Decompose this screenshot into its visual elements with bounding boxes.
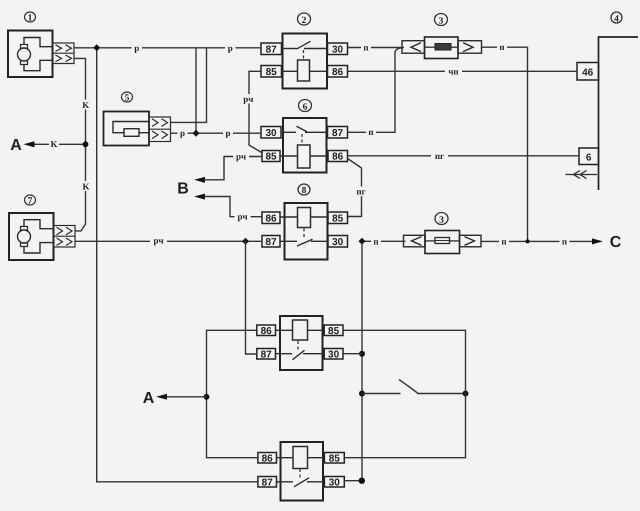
- relay K3 pin 87 box: [257, 349, 276, 361]
- wire branch down to P junction near component 5: [195, 48, 197, 133]
- wire label P before component5 junction: [178, 128, 188, 138]
- junction at relay K4 pin 30: [359, 478, 365, 484]
- svg-text:85: 85: [332, 214, 344, 225]
- fuse F2 left connector: [404, 235, 426, 247]
- junction P node at component 5 output: [193, 130, 200, 137]
- wire label ChP: [445, 66, 462, 76]
- relay K6 coil link dashed: [301, 134, 303, 145]
- wire net K from component 1 down to component 7: [74, 58, 86, 231]
- fuse F2 internal wires: [425, 240, 460, 242]
- svg-text:pч: pч: [237, 212, 247, 222]
- svg-text:87: 87: [332, 128, 344, 139]
- switch S1 right wire: [417, 393, 466, 395]
- relay K2 pin 85 box: [261, 66, 282, 79]
- svg-text:86: 86: [265, 214, 277, 225]
- connector X7 of component 7: [54, 226, 76, 248]
- motor M1 brush top: [21, 45, 28, 49]
- component 5 internal element outline: [113, 122, 149, 133]
- relay K2 pin 86 box: [328, 66, 348, 79]
- svg-text:85: 85: [265, 152, 277, 163]
- svg-text:30: 30: [332, 237, 344, 248]
- junction at switch right: [463, 391, 469, 397]
- resistor element inside component 5: [124, 129, 139, 137]
- relay K8 pin 87 box: [262, 236, 280, 249]
- wire label P at x230: [225, 43, 236, 53]
- arrowhead of node C: [592, 238, 603, 244]
- svg-text:чп: чп: [448, 66, 458, 76]
- svg-text:30: 30: [265, 128, 277, 139]
- wire from node B lower arrow to relay 8 pin 86: [204, 197, 262, 217]
- svg-text:п: п: [562, 236, 567, 246]
- relay K6 pin 85 box: [262, 151, 280, 163]
- relay K3 coil link dashed: [297, 341, 299, 351]
- wire net P horizontal from component 1 to relay 2 pin 87: [74, 47, 261, 49]
- relay K2 body: [283, 34, 328, 89]
- connector block component 4 circled label 4: [611, 12, 622, 24]
- wire left loop connecting relay K3 pin 86 and relay K4 pin 86: [207, 330, 258, 457]
- component 5 circled label 5: [122, 92, 133, 104]
- wire P from RC junction to fuse F2: [362, 240, 406, 242]
- junction at switch left: [359, 391, 365, 397]
- relay K2 coil link dashed: [303, 50, 305, 60]
- arrowhead of node A bottom: [156, 394, 167, 400]
- relay K8 body: [285, 203, 328, 260]
- wire label K lower: [81, 181, 91, 192]
- wire net P from component 5 to relay 6 pin 30: [171, 132, 262, 134]
- relay K4 coil: [293, 447, 308, 469]
- svg-text:п: п: [499, 42, 504, 52]
- wire from relay K3 pin 30 to vertical: [343, 353, 362, 355]
- relay K4 pin 87 box: [258, 477, 277, 489]
- svg-text:K: K: [82, 182, 89, 192]
- svg-text:пг: пг: [356, 186, 365, 196]
- fuse F1 element: [435, 44, 451, 51]
- svg-text:pч: pч: [243, 94, 253, 104]
- svg-text:8: 8: [302, 186, 307, 196]
- svg-text:86: 86: [262, 454, 274, 465]
- svg-text:86: 86: [332, 67, 344, 78]
- relay K6 contact wire and blade: [281, 126, 328, 132]
- wire label PG right: [431, 151, 448, 161]
- component 4 pin 46 box: [577, 63, 599, 81]
- svg-text:3: 3: [439, 215, 444, 225]
- wire branch from component 5 upper pin up to net P: [171, 48, 207, 123]
- svg-text:86: 86: [261, 326, 273, 337]
- svg-text:30: 30: [329, 478, 341, 489]
- svg-text:85: 85: [328, 326, 340, 337]
- fuse F1 body: [425, 37, 459, 59]
- switch S1 left wire: [362, 393, 401, 395]
- fuse F2 (component 3 bottom) circled label 3: [435, 213, 448, 226]
- junction at relay K3 pin 30: [359, 351, 365, 357]
- fuse F1 right connector: [458, 41, 482, 54]
- motor M2 armature circle: [18, 230, 31, 243]
- double-chevron arrow symbol below pin 6: [566, 171, 598, 179]
- relay K4 pin 86 box: [258, 453, 277, 465]
- motor M2 (component 7) outer box: [9, 213, 54, 260]
- component 4 pin 6 box: [579, 148, 599, 165]
- wire label RC on wire from component 7: [150, 235, 167, 245]
- svg-text:86: 86: [332, 152, 344, 163]
- connector block component 4 outline: [599, 37, 639, 190]
- wire label P after fuse F2: [499, 236, 509, 246]
- svg-text:87: 87: [266, 45, 278, 56]
- motor M1 (component 1) outer box: [8, 31, 53, 78]
- junction P node at component 1 output: [93, 44, 100, 51]
- relay K3 coil: [293, 320, 308, 340]
- svg-text:30: 30: [332, 45, 344, 56]
- relay K4 (lower bottom relay) body: [281, 442, 324, 501]
- relay K3 pin 30 box: [324, 349, 343, 361]
- switch S1 blade: [399, 380, 418, 394]
- wire label P on relay 6 pin 87 wire: [366, 127, 376, 137]
- relay K3 contact wire and blade: [276, 350, 325, 359]
- relay K4 pin 85 box: [324, 453, 344, 465]
- junction K node with branch A: [83, 141, 89, 147]
- svg-text:85: 85: [329, 454, 341, 465]
- resistor block component 5 box: [104, 112, 150, 146]
- relay K6 (component 6) circled label 6: [299, 100, 312, 113]
- relay K4 pin 30 box: [324, 477, 344, 489]
- svg-text:85: 85: [266, 67, 278, 78]
- relay K8 coil link dashed: [303, 229, 305, 240]
- node B upper arrowhead: [194, 177, 205, 183]
- svg-text:K: K: [50, 139, 57, 149]
- svg-text:пг: пг: [435, 151, 444, 161]
- wire P from relay 2 pin 30 to fuse F1: [348, 47, 405, 49]
- relay K3 pin 85 box: [324, 325, 343, 337]
- svg-text:46: 46: [582, 68, 594, 79]
- relay K8 coil wires: [280, 216, 328, 218]
- wire label K on A branch: [49, 139, 59, 149]
- component 7 circled label 7: [25, 195, 36, 207]
- svg-text:2: 2: [302, 16, 307, 26]
- svg-text:7: 7: [28, 197, 33, 207]
- arrowhead of node A left: [24, 141, 35, 147]
- wire label P before fuse F1: [361, 43, 371, 53]
- fuse F2 right connector: [460, 235, 482, 247]
- wire label K upper: [81, 100, 90, 111]
- wire from RC junction down to relay K3 pin 87: [246, 241, 257, 354]
- relay K6 pin 87 box: [328, 127, 348, 140]
- component 1 circled label 1: [25, 12, 36, 24]
- svg-text:1: 1: [28, 14, 33, 24]
- svg-text:п: п: [368, 127, 373, 137]
- svg-text:p: p: [180, 128, 185, 138]
- wire P from fuse F1 down to net P lower: [482, 47, 528, 241]
- relay K2 coil wires: [282, 70, 328, 72]
- svg-text:п: п: [363, 43, 368, 53]
- wire label P after fuse F1: [497, 42, 507, 52]
- wire label P before node C: [560, 236, 570, 246]
- relay K8 pin 30 box: [328, 236, 348, 249]
- wire from node A arrow to junction: [165, 396, 207, 398]
- relay K2 contact wire and blade: [282, 41, 328, 49]
- fuse F1 left connector: [402, 41, 425, 54]
- relay K2 pin 30 box: [328, 43, 348, 56]
- relay K8 (component 8) circled label 8: [298, 184, 310, 196]
- relay K4 contact wire and blade: [277, 478, 325, 487]
- connector X1 of component 1: [53, 43, 75, 64]
- wire label P after component5 junction: [223, 128, 233, 138]
- relay K2 coil: [298, 60, 310, 81]
- wire ChP from relay 2 pin 86 to component 4 pin 46: [348, 70, 578, 72]
- motor M2 internal wiring top: [24, 220, 54, 229]
- wire PG from relay 6 pin 86 down to relay 8 pin 85: [348, 159, 362, 217]
- wire right loop connecting relay K3 pin 85 and relay K4 pin 85: [343, 330, 466, 457]
- fuse F2 body: [425, 231, 460, 254]
- relay K6 body: [283, 118, 327, 173]
- svg-text:87: 87: [262, 478, 274, 489]
- wire net RC from component 7 to relay 8 pin 87: [75, 240, 261, 242]
- relay K4 coil link dashed: [299, 469, 301, 479]
- svg-text:6: 6: [303, 102, 308, 112]
- motor M1 brush bottom: [21, 61, 28, 65]
- motor M2 internal wiring bottom: [24, 243, 54, 253]
- wire long vertical from P junction down to bottom relay pin 87: [97, 48, 258, 482]
- relay K2 (component 2) circled label 2: [298, 13, 311, 26]
- relay K8 pin 86 box: [262, 212, 280, 225]
- fuse F1 internal wires: [425, 46, 459, 48]
- svg-text:3: 3: [439, 16, 444, 26]
- svg-text:p: p: [228, 43, 233, 53]
- wire from node B upper arrow to relay 6 pin 85: [204, 157, 262, 180]
- junction node A bottom: [204, 394, 210, 400]
- relay K4 coil wires: [277, 457, 325, 459]
- wire label RC on B lower wire: [235, 212, 251, 222]
- wire net A-left branch: [33, 143, 86, 145]
- wire label RC on B upper wire: [233, 152, 249, 162]
- svg-text:п: п: [501, 236, 506, 246]
- svg-text:6: 6: [586, 152, 592, 163]
- motor M2 brush top: [21, 227, 28, 231]
- svg-text:30: 30: [328, 350, 340, 361]
- junction P node at relay 8 pin 30: [359, 238, 366, 245]
- relay K6 pin 30 box: [261, 127, 281, 140]
- wire P from relay 6 pin 87 joining fuse F1 input: [348, 48, 403, 133]
- svg-text:pч: pч: [236, 152, 246, 162]
- svg-text:C: C: [610, 234, 622, 251]
- relay K8 contact wire and blade: [280, 239, 328, 246]
- relay K3 (upper bottom relay) body: [280, 316, 323, 370]
- relay K6 coil wires: [280, 155, 328, 157]
- svg-text:p: p: [134, 43, 139, 53]
- node B lower arrowhead: [194, 194, 205, 200]
- motor M2 brush bottom: [21, 243, 28, 247]
- svg-text:B: B: [177, 181, 189, 198]
- wire label PG on vertical: [355, 186, 369, 196]
- relay K6 pin 86 box: [328, 151, 348, 163]
- svg-text:87: 87: [265, 237, 277, 248]
- fuse F1 (component 3 top) circled label 3: [435, 14, 448, 27]
- wire P from fuse F2 to node C: [481, 240, 592, 242]
- relay K8 pin 85 box: [328, 212, 348, 225]
- junction of vertical P with lower P wire: [526, 239, 530, 243]
- relay K3 coil wires: [276, 329, 325, 331]
- wire label P at x137: [132, 43, 143, 53]
- svg-text:5: 5: [125, 94, 130, 104]
- motor M1 armature circle: [18, 48, 31, 61]
- motor M1 internal wiring top: [24, 38, 53, 47]
- svg-text:87: 87: [261, 350, 273, 361]
- wire RC from relay 2 pin 85 down to relay 6 pin 85: [249, 71, 262, 152]
- connector X5 of component 5: [149, 117, 171, 142]
- relay K8 coil: [298, 208, 311, 228]
- svg-text:K: K: [82, 100, 89, 110]
- wire vertical from P junction down through switch to relay K4 pin 30: [344, 241, 362, 480]
- svg-text:п: п: [373, 236, 378, 246]
- fuse F2 element: [435, 238, 450, 244]
- svg-text:A: A: [10, 137, 22, 154]
- svg-text:A: A: [143, 390, 155, 407]
- wire label P before fuse F2: [371, 236, 381, 246]
- motor M1 internal wiring bottom: [24, 60, 53, 70]
- svg-text:4: 4: [614, 14, 619, 24]
- relay K3 pin 86 box: [257, 325, 276, 337]
- relay K2 pin 87 box: [261, 43, 282, 56]
- relay K6 coil: [298, 145, 311, 168]
- wire PG from relay 6 pin 86 to component 4 pin 6: [348, 155, 580, 157]
- svg-text:pч: pч: [153, 235, 163, 245]
- junction RC node with branch to lower relays: [242, 238, 249, 245]
- svg-text:p: p: [225, 128, 230, 138]
- wire label RC on vertical: [241, 94, 257, 104]
